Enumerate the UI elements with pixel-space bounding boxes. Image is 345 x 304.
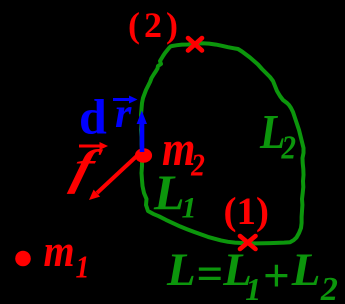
svg-text:m1: m1: [44, 227, 90, 285]
mass dot m2: [135, 148, 152, 162]
vector dr: blue arrow upward from m2: [137, 111, 147, 153]
mass dot m1: [15, 251, 31, 267]
svg-text:L=L1+L2: L=L1+L2: [166, 244, 338, 304]
node (1): red cross mark at bottom: [240, 236, 256, 249]
svg-text:(2): (2): [128, 5, 182, 45]
svg-text:m2: m2: [162, 121, 205, 183]
wire: closed loop path L (L1 left branch + L2 right branch): [141, 43, 304, 243]
node (2): red cross mark at top: [188, 38, 202, 51]
svg-text:L2: L2: [259, 104, 296, 166]
vector f: red force arrow from m2 toward m1: [89, 153, 140, 200]
svg-text:(1): (1): [224, 190, 269, 233]
svg-text:d: d: [79, 89, 107, 145]
